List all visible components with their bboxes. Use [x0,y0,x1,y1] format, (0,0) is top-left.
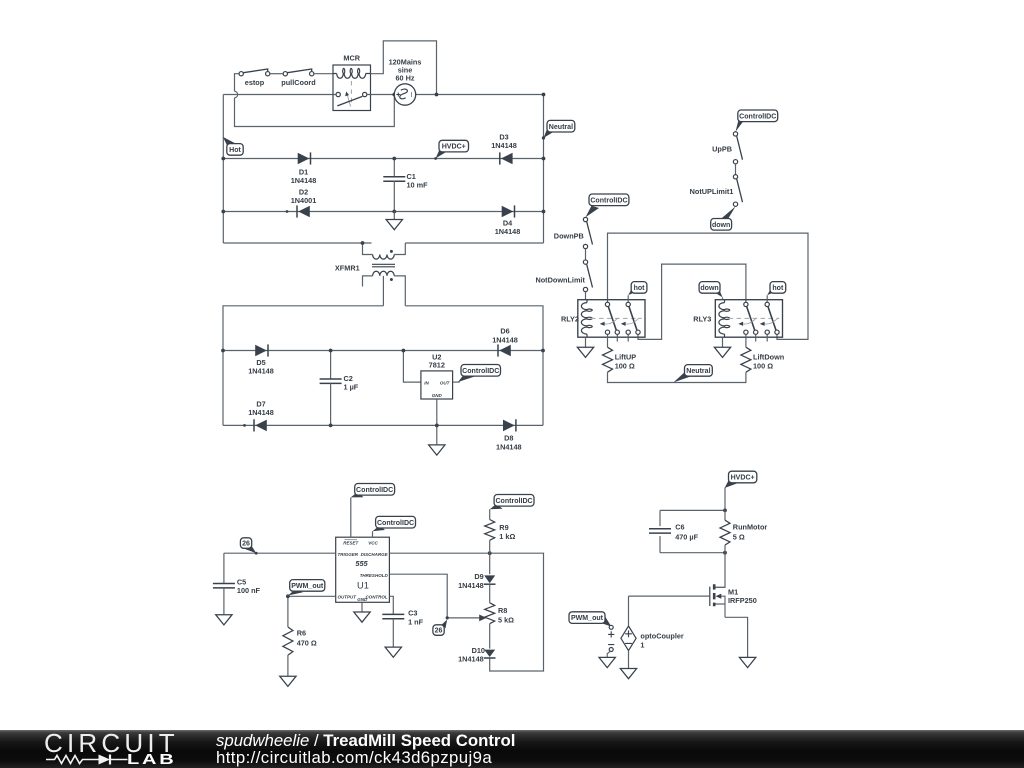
resistor R6 [283,627,317,655]
ground R6 [280,676,296,686]
svg-text:D1: D1 [299,168,308,177]
svg-text:1N4148: 1N4148 [248,408,274,417]
svg-text:LiftDown: LiftDown [753,352,784,361]
wire RLY2 hot stub [627,295,629,302]
wire RLY3 stub B1 [766,334,768,341]
opto input terminal + [609,625,613,629]
resistor LiftDown [741,347,784,372]
diode D3 [500,152,513,164]
label D3 value [491,141,517,150]
relay RLY3 contact B [760,302,779,334]
svg-text:TRIGGER: TRIGGER [338,552,359,557]
relay MCR coil [333,68,371,78]
wire C5 top [223,553,225,583]
footer bar [0,730,1024,768]
svg-text:NotUPLimit1: NotUPLimit1 [690,187,734,196]
switch DownPB [554,217,593,248]
junction U2 in row [402,349,406,353]
wire row1 HVDC [223,158,543,160]
svg-text:ControlIDC: ControlIDC [377,520,414,527]
wire secondary center tap [382,276,384,306]
CircuitLab logo LAB [127,752,176,768]
ground C3 [385,647,401,657]
flag hot RLY3 [767,282,786,296]
junction C1 row2 [392,210,396,214]
svg-text:ControlIDC: ControlIDC [495,498,532,505]
junction top right corner [542,93,546,97]
wire estop branch upper [235,74,239,92]
svg-text:estop: estop [245,78,265,87]
svg-text:5 kΩ: 5 kΩ [498,615,514,624]
svg-text:Neutral: Neutral [686,368,710,375]
wire UpPB to NotUPLimit1 [735,164,737,175]
wire primary right pin [394,243,405,255]
svg-text:C5: C5 [237,577,246,586]
svg-text:D5: D5 [256,358,265,367]
diode D4 [502,205,515,217]
diode D5 [255,344,268,356]
transformer XFMR1 secondary coil [373,271,395,276]
ground M1 source [739,657,755,667]
svg-text:down: down [712,222,730,229]
wire MCR switch to source [371,94,395,96]
wire U2 IN [403,351,421,383]
label D7 [256,399,265,408]
relay RLY2 body [561,300,645,338]
wire R6 bottom [287,655,289,676]
wire C1 bottom [393,181,395,211]
svg-text:VCC: VCC [368,540,378,545]
svg-text:C3: C3 [408,609,417,618]
svg-text:XFMR1: XFMR1 [335,263,360,272]
svg-text:ControlIDC: ControlIDC [590,197,627,204]
svg-text:IN: IN [424,380,429,385]
wire D9 top [489,553,491,574]
svg-text:PWM_out: PWM_out [571,615,604,622]
svg-text:D4: D4 [503,218,513,227]
svg-text:1N4148: 1N4148 [492,335,518,344]
svg-text:1 µF: 1 µF [344,383,359,392]
wire main AC horizontal [223,94,333,96]
svg-text:HVDC+: HVDC+ [731,475,755,482]
svg-text:C6: C6 [675,523,684,532]
ground U2 [429,445,445,455]
svg-text:NotDownLimit: NotDownLimit [535,275,585,284]
wire U2 GND [436,399,438,445]
voltage source 120Mains [389,57,422,105]
svg-text:down: down [700,285,718,292]
wire output [288,596,336,627]
flag Neutral rail [674,365,713,383]
svg-text:pullCoord: pullCoord [281,78,315,87]
junction C2 row5 [329,349,333,353]
wire R8 to D10 [489,624,491,649]
opto input hook to ground [607,651,610,658]
ground opto input [599,657,615,667]
wire ground stem bridge1 [393,212,395,220]
relay MCR box [333,53,371,110]
label D4 [503,218,513,227]
wire bridge2 top left [223,306,383,426]
svg-text:60 Hz: 60 Hz [395,73,414,82]
svg-text:D3: D3 [499,132,508,141]
diode D2 [297,205,310,217]
flag down RLY3 [699,282,722,298]
switch UpPB [712,132,742,164]
svg-text:HVDC+: HVDC+ [442,144,466,151]
wire hvdc down [724,487,726,510]
svg-text:PWM_out: PWM_out [291,583,324,590]
junction HVDC flag [434,157,437,160]
label D5 value [248,367,274,376]
wire discharge right [389,553,543,671]
wire trigger to C5 [224,552,336,554]
regulator U2 7812 box [421,352,453,399]
footer url [216,748,492,768]
flag ControlIDC R9 [490,495,534,510]
IC U1 555 box [336,537,390,602]
wire U2 OUT [453,381,460,383]
flag ControlIDC DownPB [586,194,629,217]
junction D2 anode [286,210,289,213]
wire runmotor bottom [724,545,726,553]
label D1 [299,168,308,177]
svg-text:1N4148: 1N4148 [495,227,521,236]
svg-text:R8: R8 [498,606,507,615]
transistor M1 IRFP250 [710,584,757,617]
wire DownPB to NotDownLimit [585,249,587,260]
wire hop over main wire [235,91,238,97]
transformer XFMR1 core [372,264,395,267]
svg-text:26: 26 [435,628,443,635]
flag Hot [223,137,243,155]
wire primary left pin [363,243,373,255]
ground bridge1 [386,220,402,230]
svg-text:ControlIDC: ControlIDC [356,487,393,494]
wire bridge2 top right [405,306,543,426]
wire RLY3 down pin [722,297,724,299]
junction threshold wiper [446,616,449,619]
label D2 value [291,196,317,205]
junction left row D5 [221,349,225,353]
ground RLY2 [577,347,593,357]
wire C2 top [330,351,332,380]
wire U1 gnd stem [361,602,363,612]
wire row3 left [223,242,371,244]
junction discharge R9 [488,551,492,555]
wire RLY2 stub A2 [616,334,618,341]
svg-text:Hot: Hot [229,147,241,154]
opto plus minus [608,631,614,644]
svg-text:RLY2: RLY2 [561,314,579,323]
transformer secondary phase dot [390,278,393,281]
label D7 value [248,408,274,417]
flag HVDC+ [436,140,469,158]
svg-text:ControlIDC: ControlIDC [462,368,499,375]
svg-text:470 Ω: 470 Ω [297,639,317,648]
diode D7 [254,419,267,431]
svg-text:1N4001: 1N4001 [291,196,317,205]
dependent source optoCoupler [621,626,684,651]
resistor R8 pot [485,603,514,625]
wire pullCoord to MCR coil [314,73,333,75]
junction at source left [392,93,396,97]
wire D9 to R8 [489,584,491,603]
svg-text:U1: U1 [357,580,369,590]
svg-text:hot: hot [634,285,646,292]
wire NotDownLimit to RLY2 coil [585,292,587,300]
svg-text:ControlIDC: ControlIDC [739,113,776,120]
svg-text:IRFP250: IRFP250 [728,596,757,605]
svg-text:1N4148: 1N4148 [291,176,317,185]
diode D10 [458,646,495,663]
relay RLY2 contact A [600,302,620,334]
capacitor C2 [320,374,359,392]
transformer XFMR1 primary coil [373,255,395,260]
relay MCR contact [333,92,371,106]
capacitor C5 [213,577,261,595]
svg-text:DownPB: DownPB [554,231,584,240]
svg-text:GND: GND [357,597,368,602]
svg-text:R9: R9 [499,523,508,532]
svg-text:D2: D2 [299,187,308,196]
wire LiftUP bottom rail [608,372,746,382]
wire gate [629,595,710,597]
wire LiftUP top [607,334,609,347]
wire row3 right [405,242,543,244]
ground U1 [354,612,370,622]
junction right row D6 [541,349,545,353]
svg-text:D8: D8 [504,433,513,442]
svg-text:D7: D7 [256,399,265,408]
svg-text:1 kΩ: 1 kΩ [499,532,515,541]
ground C5 [216,615,232,625]
wire source to ground [725,617,748,657]
wire C6 bottom [659,536,661,553]
label D1 value [291,176,317,185]
relay MCR dashed link [345,81,351,107]
wire R9 top [489,509,491,519]
svg-text:RLY3: RLY3 [693,314,711,323]
flag PWM_out opto [569,612,611,627]
wire RLY2 gnd stem [585,337,587,347]
wire estop to pullCoord [270,73,283,75]
wire control to C3 [389,596,393,614]
label D8 value [496,443,522,452]
wire motor bottom node [660,552,725,554]
svg-text:5 Ω: 5 Ω [733,532,745,541]
label D4 value [495,227,521,236]
svg-text:10 mF: 10 mF [407,181,429,190]
junction right vertical row1 [542,157,546,161]
junction PWM out [286,594,290,598]
svg-text:100 nF: 100 nF [237,586,261,595]
svg-text:D6: D6 [500,327,509,336]
wire MCR coil to source top loop [371,41,437,95]
junction C1 row1 [392,157,396,161]
svg-text:555: 555 [355,559,368,568]
svg-text:optoCoupler: optoCoupler [640,631,684,640]
transformer primary phase dot [390,250,393,253]
flag ControlIDC UpPB [736,110,778,132]
junction C2 row7 [329,424,333,428]
flag 26 wiper [433,620,447,636]
junction left vertical row1 [221,157,225,161]
svg-text:MCR: MCR [343,53,360,62]
diode D8 [503,419,516,431]
svg-text:GND: GND [432,393,443,398]
svg-text:1N4148: 1N4148 [496,443,522,452]
opto input terminal - [609,648,613,652]
svg-text:OUT: OUT [440,380,451,385]
switch NotDownLimit [535,260,592,292]
wire D5 D6 row [223,350,543,352]
junction primary left [361,241,365,245]
wire R9 bottom [489,540,491,553]
svg-text:C2: C2 [344,374,353,383]
junction U2 gnd row [435,424,439,428]
wire secondary right pin [394,276,405,306]
svg-text:R6: R6 [297,628,306,637]
flag Neutral [544,120,575,138]
CircuitLab logo resistor-diode symbol [0,730,210,768]
wire C2 bottom [330,383,332,425]
flag down net [711,206,736,230]
flag HVDC+ motor [725,471,757,488]
switch NotUPLimit1 [690,175,743,207]
wire motor top node [660,509,725,511]
wire U1 RESET pin [350,498,352,538]
ground RLY3 [714,347,730,357]
svg-text:C1: C1 [407,172,416,181]
svg-text:100 Ω: 100 Ω [615,361,635,370]
svg-text:1 nF: 1 nF [408,617,424,626]
svg-text:1N4148: 1N4148 [458,581,484,590]
junction left vertical row2 [221,210,225,214]
capacitor C6 [649,523,699,542]
relay RLY2 contact B [621,302,640,334]
flag 26 trigger [240,538,256,553]
junction at source right [435,93,439,97]
diode D1 [298,152,311,164]
wire RLY3 hot stub [766,295,768,302]
svg-text:LiftUP: LiftUP [615,352,637,361]
label D8 [504,433,513,442]
wire C6 top [659,510,661,526]
junction motor bottom [723,551,727,555]
wire RLY3 stub A2 [755,334,757,341]
junction motor top [723,509,727,513]
wire D7 D8 row [223,424,543,426]
flag ControlIDC reset [351,484,395,498]
wire rail2 RLY2B-RLY3A [638,264,746,339]
flag hot RLY2 [628,282,647,296]
svg-text:1N4148: 1N4148 [491,141,517,150]
wire left vertical Hot net [222,95,224,244]
svg-text:M1: M1 [728,588,738,597]
wire C1 top [393,159,395,177]
wire source to right corner [416,95,544,244]
svg-text:Neutral: Neutral [549,124,573,131]
relay RLY3 body [693,300,782,338]
label D2 [299,187,308,196]
wire row2 [223,211,543,213]
wire LiftDown top [745,334,747,347]
label D6 value [492,335,518,344]
svg-text:OUTPUT: OUTPUT [338,594,358,599]
wire drain [716,553,726,588]
resistor R9 [485,520,516,541]
diode D6 [498,344,511,356]
wire C3 bottom [392,619,394,647]
junction Neutral tail [542,136,545,139]
ground optocoupler [620,669,636,679]
svg-text:UpPB: UpPB [712,144,732,153]
svg-text:7812: 7812 [429,361,445,370]
wire RLY2 stub B1 [627,334,629,341]
capacitor C3 [382,609,423,627]
flag ControlIDC vcc [373,516,416,531]
flag ControlIDC U2 [458,365,501,383]
svg-text:hot: hot [772,285,784,292]
switch pullCoord [281,69,315,87]
svg-text:CONTROL: CONTROL [365,594,387,599]
relay RLY3 contact A [738,302,758,334]
wire opto bottom [628,651,630,669]
svg-text:26: 26 [242,541,250,548]
diode D9 [458,572,495,590]
wire rail1 RLY2A-RLY3B [608,233,809,339]
label D5 [256,358,265,367]
wire runmotor top [724,510,726,520]
svg-text:100 Ω: 100 Ω [753,361,773,370]
svg-text:THRESHOLD: THRESHOLD [360,573,389,578]
wire RLY3 gnd stem [722,337,724,347]
svg-text:1: 1 [640,640,644,649]
flag PWM_out 555 [288,580,325,596]
switch estop [239,69,270,87]
wire opto top [628,596,630,626]
potentiometer R8 wiper arrow [447,615,486,622]
wire secondary left stub [363,276,373,287]
junction right vertical row2 [542,210,546,214]
svg-text:RunMotor: RunMotor [733,523,768,532]
svg-text:1N4148: 1N4148 [458,654,484,663]
resistor LiftUP [603,347,637,372]
svg-text:DISCHARGE: DISCHARGE [361,552,389,557]
wire estop branch lower + return [235,95,395,127]
footer title [216,731,515,751]
wire C5 bottom [223,588,225,615]
svg-text:RESET: RESET [343,540,359,545]
label D3 [499,132,508,141]
wire threshold [389,574,447,618]
CircuitLab logo CIRCUIT [44,728,179,759]
wire U1 VCC pin [372,531,374,537]
capacitor C1 [383,172,428,190]
junction D7 anode [243,424,246,427]
label XFMR1 [335,263,360,272]
svg-text:470 µF: 470 µF [675,532,698,541]
junction trigger 26 [255,552,258,555]
resistor RunMotor [720,520,767,545]
label D6 [500,327,509,336]
svg-text:1N4148: 1N4148 [248,367,274,376]
